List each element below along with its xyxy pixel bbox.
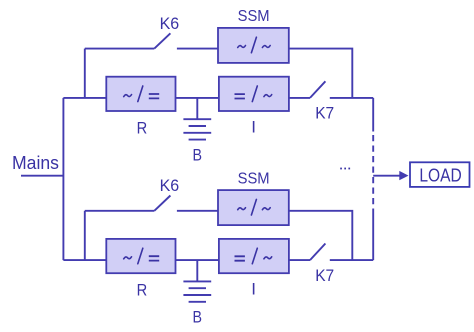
svg-text:Mains: Mains (12, 152, 59, 173)
svg-text:LOAD: LOAD (419, 165, 461, 185)
